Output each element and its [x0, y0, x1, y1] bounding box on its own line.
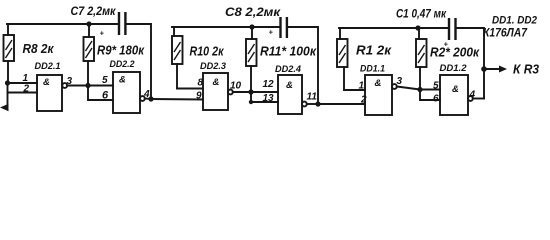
svg-text:2: 2: [360, 95, 367, 106]
node output tap: [481, 66, 487, 72]
wire rail1 right of C7: [127, 24, 152, 99]
svg-text:13: 13: [263, 93, 275, 104]
svg-text:2: 2: [23, 84, 30, 95]
node rail2-R11 junction: [249, 24, 254, 29]
svg-text:6: 6: [433, 94, 439, 105]
svg-text:DD1.2: DD1.2: [440, 63, 468, 74]
resistor R11: [246, 27, 257, 92]
node rail3-R2 junction: [415, 25, 420, 30]
svg-text:+: +: [444, 40, 449, 49]
svg-text:C7 2,2мк: C7 2,2мк: [71, 6, 117, 18]
svg-text:DD1.1: DD1.1: [360, 64, 385, 75]
wire pin1 DD1.1: [344, 89, 365, 91]
resistor R8: [4, 24, 15, 83]
node D junction: [248, 89, 253, 94]
gate DD2.2: [113, 72, 145, 113]
svg-text:&: &: [213, 77, 220, 88]
wire out4 to node C: [145, 98, 151, 101]
svg-text:11: 11: [307, 92, 318, 103]
gate DD2.1: [37, 75, 67, 111]
svg-text:&: &: [286, 80, 293, 91]
wire pin2 DD2.1: [8, 83, 38, 93]
wire pin8 DD2.3: [177, 88, 203, 90]
svg-text:C1 0,47 мк: C1 0,47 мк: [396, 9, 447, 21]
svg-text:R2* 200к: R2* 200к: [430, 45, 480, 60]
wire pin6 DD2.2: [88, 86, 113, 101]
wire pin6 DD1.2: [420, 90, 440, 101]
arrow to external left: [0, 104, 9, 111]
resistor R1: [337, 28, 348, 90]
svg-text:К R3: К R3: [513, 63, 539, 77]
wire pin1 DD2.1: [8, 82, 38, 84]
svg-text:&: &: [452, 84, 459, 95]
svg-text:6: 6: [102, 90, 109, 102]
svg-text:3: 3: [397, 76, 403, 87]
wire top rail 3: [339, 27, 448, 29]
svg-text:5: 5: [102, 75, 108, 86]
gate DD2.3: [203, 73, 233, 110]
svg-text:9: 9: [196, 91, 202, 102]
wire top rail 2: [172, 26, 280, 28]
svg-text:10: 10: [230, 81, 242, 92]
resistor R10: [172, 27, 183, 89]
svg-text:R1 2к: R1 2к: [356, 43, 392, 58]
capacitor C1: [448, 18, 457, 40]
svg-text:R10 2к: R10 2к: [190, 44, 225, 59]
wire node F to pin2 DD1.1: [318, 103, 365, 105]
svg-text:5: 5: [433, 81, 439, 92]
wire rail2 right of C8: [288, 27, 318, 104]
svg-text:&: &: [43, 77, 50, 88]
node pin13 corner: [249, 100, 253, 104]
wire rail3 right of C1: [457, 28, 485, 99]
wire to left arrow: [7, 93, 9, 108]
wire pin13 DD2.4: [251, 92, 278, 102]
resistor R9: [84, 24, 95, 86]
svg-text:К176ЛА7: К176ЛА7: [483, 26, 528, 40]
node F junction: [315, 101, 320, 106]
gate DD1.2: [440, 75, 473, 115]
node rail1-R9 junction: [86, 21, 91, 26]
svg-text:DD2.4: DD2.4: [275, 64, 302, 75]
arrow to R3: [499, 66, 507, 73]
wire out11 to node F: [307, 103, 318, 105]
svg-text:1: 1: [23, 73, 29, 84]
svg-text:DD2.1: DD2.1: [35, 61, 61, 72]
node A junction: [5, 80, 10, 85]
node C junction: [148, 96, 153, 101]
svg-text:C8 2,2мк: C8 2,2мк: [225, 7, 281, 19]
wire node C to pin9 DD2.3: [151, 98, 203, 101]
node B junction: [85, 83, 90, 88]
wire out10 to node D: [233, 91, 251, 93]
svg-text:+: +: [269, 28, 274, 37]
wire out3 to node E: [397, 87, 420, 90]
svg-text:&: &: [375, 78, 382, 89]
svg-text:R8 2к: R8 2к: [23, 41, 55, 56]
node E junction: [417, 87, 422, 92]
svg-text:R9* 180к: R9* 180к: [97, 43, 145, 58]
wire pin5 DD2.2: [88, 85, 113, 87]
wire output tap: [484, 68, 500, 70]
gate DD1.1: [365, 75, 397, 115]
wire top rail 1: [7, 23, 118, 25]
svg-text:DD2.3: DD2.3: [200, 61, 227, 72]
svg-text:DD2.2: DD2.2: [110, 59, 136, 70]
gate DD2.4: [278, 75, 307, 114]
svg-text:+: +: [100, 29, 105, 38]
wire out3 to node B: [67, 85, 88, 87]
capacitor C7: [118, 12, 127, 35]
svg-text:12: 12: [263, 79, 275, 90]
resistor R2: [416, 28, 427, 90]
svg-text:R11* 100к: R11* 100к: [260, 44, 317, 59]
svg-text:&: &: [119, 75, 126, 86]
capacitor C8: [279, 17, 288, 38]
wire out4 to rail corner: [473, 98, 484, 100]
wire pin12 DD2.4: [251, 91, 278, 93]
svg-text:1: 1: [359, 81, 365, 92]
wire pin5 DD1.2: [420, 89, 440, 91]
